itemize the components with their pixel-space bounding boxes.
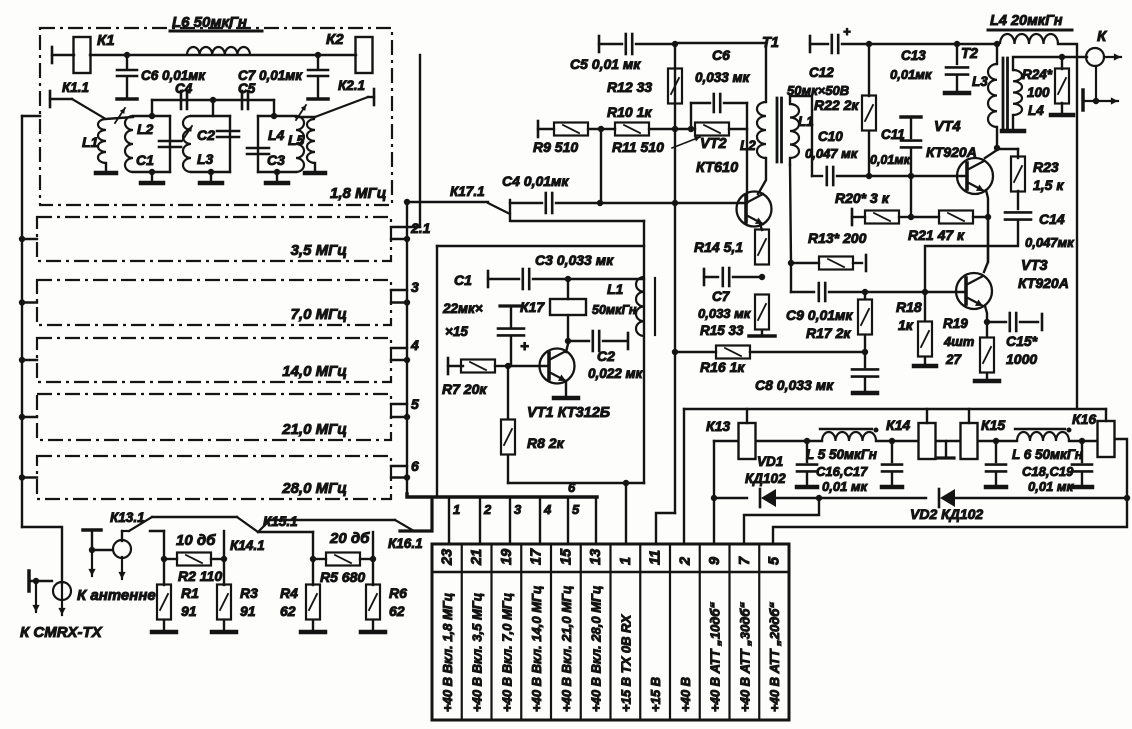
relay contact K2 <box>326 31 373 73</box>
tank3 ground <box>266 169 288 183</box>
pin number 21 <box>469 549 485 566</box>
inductor L1 <box>82 119 116 173</box>
svg-text:L1: L1 <box>607 281 624 297</box>
terminal strip columns <box>462 544 760 720</box>
lead to pin 5 <box>773 498 1127 544</box>
terminal label 23 <box>440 593 455 712</box>
tank3 top wire <box>273 100 275 116</box>
connector K antenna <box>113 540 131 579</box>
1.8 MHz band filter box <box>40 28 392 205</box>
resistor R13* 200 <box>791 230 867 271</box>
relay K14 <box>886 409 936 459</box>
node return <box>623 480 629 486</box>
svg-text:С4: С4 <box>175 81 193 96</box>
svg-text:R21 47 к: R21 47 к <box>908 227 965 243</box>
lead to pin 1 <box>625 483 627 544</box>
wire R9R10 junction drop <box>598 126 604 203</box>
bus to rail corner <box>407 494 597 497</box>
svg-text:VТ1 КТ312Б: VТ1 КТ312Б <box>527 405 610 421</box>
terminal label 15 <box>559 586 574 712</box>
VT3 emitter node <box>984 306 990 325</box>
node top <box>210 97 216 116</box>
terminal label 7 <box>737 602 752 712</box>
svg-text:К17: К17 <box>520 299 545 315</box>
svg-text:R14 5,1: R14 5,1 <box>694 239 743 255</box>
T1 primary bottom to collector <box>758 158 766 194</box>
transistor VT1 KT312B <box>527 349 610 422</box>
svg-text:К2.1: К2.1 <box>338 78 365 93</box>
svg-text:R6: R6 <box>389 585 407 601</box>
svg-text:К антенне: К антенне <box>77 587 156 604</box>
VT1 stage box <box>437 221 644 497</box>
svg-text:23: 23 <box>439 549 455 566</box>
svg-text:R17 2к: R17 2к <box>806 325 851 341</box>
tank3 top node <box>271 113 277 119</box>
wire tank3 to L5 <box>296 116 315 118</box>
svg-text:С10: С10 <box>818 129 843 144</box>
connector K output <box>1086 28 1121 66</box>
base node <box>505 363 511 369</box>
svg-text:+40 В АТТ „20дб“: +40 В АТТ „20дб“ <box>767 602 782 712</box>
svg-text:К15.1: К15.1 <box>263 514 298 529</box>
svg-text:L3: L3 <box>197 151 214 167</box>
node VD2 right <box>1124 495 1130 501</box>
svg-text:+40 В Вкл. 14,0 МГц: +40 В Вкл. 14,0 МГц <box>529 586 544 712</box>
wire C4 to VT2 base <box>600 202 746 204</box>
svg-text:R18: R18 <box>896 299 922 315</box>
capacitor C15* 1000 <box>987 313 1042 367</box>
svg-text:1к: 1к <box>898 317 914 333</box>
svg-text:100: 100 <box>1027 85 1050 100</box>
svg-text:L4: L4 <box>268 127 285 143</box>
terminal label 21 <box>470 593 485 712</box>
svg-text:VТ4: VТ4 <box>934 119 961 135</box>
node R10 R11 <box>688 126 694 132</box>
svg-text:R4: R4 <box>280 585 298 601</box>
filter output bus <box>406 202 408 496</box>
svg-text:Т2: Т2 <box>961 46 978 62</box>
VT2 base drop <box>746 129 748 203</box>
svg-text:5: 5 <box>411 396 419 412</box>
resistor R10 1k <box>607 104 695 136</box>
pin number 19 <box>499 549 515 565</box>
terminal label 9 <box>708 602 723 712</box>
capacitor C7 0,033 <box>698 268 762 338</box>
node C12 <box>866 41 872 47</box>
svg-text:91: 91 <box>240 603 256 619</box>
svg-text:R10 1к: R10 1к <box>607 104 652 120</box>
svg-text:L4: L4 <box>1028 103 1044 118</box>
svg-text:К17.1: К17.1 <box>450 184 485 199</box>
svg-text:R20* 3 к: R20* 3 к <box>835 190 890 206</box>
band box lower stub <box>391 474 410 480</box>
wire K1 to K2 <box>90 54 356 56</box>
T2 primary top <box>994 41 1000 64</box>
VT4 emitter <box>985 190 991 220</box>
lead to pin 7 <box>744 498 819 544</box>
inductor L5 <box>288 119 325 173</box>
svg-text:R9 510: R9 510 <box>533 139 578 155</box>
label K antenne <box>77 587 156 604</box>
resistor R6 62 <box>361 559 407 632</box>
transformer T1 <box>740 35 814 162</box>
svg-text:С11: С11 <box>881 127 905 142</box>
svg-text:3,5 МГц: 3,5 МГц <box>291 242 347 259</box>
node C4 <box>597 200 603 206</box>
node long vertical <box>672 200 678 206</box>
switch K16.1 output <box>388 498 432 551</box>
label 1.8 MHz <box>330 185 386 202</box>
switch K2.1 <box>315 78 374 117</box>
terminal label 1 <box>618 613 633 712</box>
svg-text:62: 62 <box>280 603 296 619</box>
svg-text:С9 0,01мк: С9 0,01мк <box>786 307 853 323</box>
resistor R15 33 <box>749 295 775 337</box>
capacitor C2 <box>568 331 644 381</box>
resistor R1 91 <box>152 559 199 632</box>
pad1 left leg <box>150 531 167 562</box>
label C16 C17 <box>816 464 869 494</box>
svg-text:+40 В АТТ „30дб“: +40 В АТТ „30дб“ <box>737 602 752 712</box>
svg-text:R8 2к: R8 2к <box>527 435 565 451</box>
svg-text:Т1: Т1 <box>762 35 779 51</box>
output line <box>1058 44 1077 409</box>
svg-text:С12: С12 <box>809 65 834 80</box>
svg-text:КТ610: КТ610 <box>696 160 738 176</box>
svg-text:К: К <box>1097 28 1108 45</box>
band select lead 2 <box>480 497 492 544</box>
relay K16 <box>1072 409 1115 457</box>
switch K13.1 <box>110 510 152 531</box>
svg-text:С6 0,01мк: С6 0,01мк <box>141 68 206 83</box>
capacitor C10 0,047mk <box>805 129 869 185</box>
switch arrow <box>296 105 306 120</box>
svg-text:С2: С2 <box>197 127 215 143</box>
resistor R14 5,1 <box>694 230 769 265</box>
wire number 2.1 <box>410 220 431 236</box>
inter-relay stub <box>936 441 960 458</box>
tank2 ground <box>200 169 222 183</box>
T1 secondary bottom drop <box>788 158 794 266</box>
svg-text:L3: L3 <box>972 74 988 89</box>
band filter box 28,0 МГц <box>37 456 391 499</box>
tank1 ground <box>141 169 163 183</box>
band select lead 4 <box>540 497 552 544</box>
svg-text:R5 680: R5 680 <box>320 569 365 585</box>
resistor R19 27 <box>943 316 999 381</box>
svg-text:КТ920А: КТ920А <box>926 144 977 160</box>
VT4 base line <box>869 175 967 177</box>
capacitor C13 0,01mk <box>890 41 969 93</box>
svg-text:R23: R23 <box>1033 159 1059 175</box>
band filter box 3,5 МГц <box>37 217 391 261</box>
VT1 collector wire <box>566 344 568 352</box>
svg-text:11: 11 <box>648 550 664 565</box>
svg-text:19: 19 <box>499 549 515 565</box>
diode VD2 KD102 <box>819 489 1127 522</box>
relay supply rail <box>684 408 1106 410</box>
svg-text:L 5 50мкГн: L 5 50мкГн <box>806 447 877 462</box>
terminal label 5 <box>767 602 782 712</box>
svg-text:VТ3: VТ3 <box>1021 258 1048 274</box>
svg-text:R22 2к: R22 2к <box>814 97 859 113</box>
pin number 9 <box>707 557 723 565</box>
band box upper stub <box>391 289 407 291</box>
svg-text:50мк×50В: 50мк×50В <box>787 83 849 98</box>
capacitor C4 0,01mk <box>502 173 600 213</box>
svg-text:+40 В Вкл. 3,5 МГц: +40 В Вкл. 3,5 МГц <box>470 593 485 712</box>
svg-text:R15 33: R15 33 <box>700 323 744 338</box>
switch arrow <box>115 108 125 123</box>
wire base <box>508 365 549 367</box>
band filter box 7,0 МГц <box>37 280 391 325</box>
capacitor C7 <box>238 55 328 99</box>
svg-text:2: 2 <box>677 557 693 566</box>
transistor VT2 KT610 <box>696 136 772 227</box>
svg-text:К2: К2 <box>326 31 344 48</box>
svg-text:1: 1 <box>453 502 460 517</box>
resistor R18 1k <box>896 292 936 366</box>
svg-text:L2: L2 <box>137 121 154 137</box>
svg-text:R11 510: R11 510 <box>612 139 664 155</box>
label K15.1 <box>263 514 298 529</box>
node R16 right <box>862 349 868 355</box>
svg-text:28,0 МГц: 28,0 МГц <box>281 480 347 497</box>
svg-text:0,047мк: 0,047мк <box>1025 235 1075 250</box>
svg-text:L5: L5 <box>288 132 305 148</box>
node R14 bottom <box>759 274 765 280</box>
svg-text:С8 0,033 мк: С8 0,033 мк <box>755 377 834 393</box>
tank circuit L2 C1 <box>125 116 181 172</box>
capacitor C17 <box>882 441 902 487</box>
svg-text:14,0 МГц: 14,0 МГц <box>282 363 347 380</box>
svg-text:5: 5 <box>572 502 580 517</box>
svg-text:4: 4 <box>543 502 552 517</box>
svg-text:0,01мк: 0,01мк <box>890 67 933 82</box>
band filter box 14,0 МГц <box>37 338 391 382</box>
capacitor C8 0,033mk <box>755 352 878 393</box>
band select lead 1 <box>449 497 460 544</box>
svg-text:+: + <box>520 338 529 355</box>
svg-text:17: 17 <box>529 548 545 565</box>
lead to pin 9 <box>713 441 715 544</box>
svg-text:5: 5 <box>767 556 783 565</box>
antenna line <box>121 531 123 541</box>
svg-text:К16: К16 <box>1072 411 1096 427</box>
svg-text:К1.1: К1.1 <box>62 80 89 95</box>
svg-text:R16 1к: R16 1к <box>700 359 745 375</box>
VT3 collector <box>984 219 988 272</box>
band box left stub <box>19 236 37 242</box>
svg-text:К14.1: К14.1 <box>230 538 265 553</box>
svg-text:L4 20мкГн: L4 20мкГн <box>990 13 1063 29</box>
resistor R17 2k <box>806 292 872 352</box>
bias vertical <box>908 176 914 220</box>
wire C3 to L1 <box>568 278 644 280</box>
svg-text:0,01 мк: 0,01 мк <box>822 479 869 494</box>
capacitor C5 0,01mk <box>570 34 675 72</box>
svg-text:КД102: КД102 <box>745 471 786 486</box>
svg-text:L1: L1 <box>82 134 99 150</box>
svg-text:13: 13 <box>588 549 604 565</box>
node C11 <box>908 173 914 179</box>
label 20 db <box>329 530 370 547</box>
label 10 db <box>176 532 216 549</box>
svg-text:50мкГн: 50мкГн <box>592 303 637 317</box>
relay contact K1 <box>74 32 115 73</box>
svg-text:С7: С7 <box>712 289 731 304</box>
resistor R3 91 <box>212 559 258 632</box>
terminal label 17 <box>529 586 544 712</box>
band box upper stub <box>391 226 420 228</box>
svg-text:+: + <box>843 24 851 39</box>
T2 secondary bottom <box>1002 115 1024 131</box>
svg-text:+40 В Вкл. 1,8 МГц: +40 В Вкл. 1,8 МГц <box>440 593 455 712</box>
svg-text:С1: С1 <box>136 152 154 168</box>
lower wire to box <box>512 220 644 222</box>
svg-text:7,0 МГц: 7,0 МГц <box>291 306 347 323</box>
svg-text:+15 В ТХ 0В RX: +15 В ТХ 0В RX <box>618 613 633 712</box>
wire number 4 <box>410 337 419 353</box>
VT2 emitter wire <box>760 224 762 230</box>
svg-text:7: 7 <box>737 556 753 565</box>
svg-text:0,033 мк: 0,033 мк <box>695 70 751 85</box>
resistor R8 2k <box>501 366 565 483</box>
svg-text:К13.1: К13.1 <box>110 510 145 525</box>
lead to pin 2 +40V <box>683 409 685 544</box>
terminal label 2 <box>678 677 693 712</box>
left input bus <box>22 116 40 527</box>
svg-text:К13: К13 <box>706 418 730 434</box>
band select lead 6 <box>568 480 596 544</box>
resistor R23 1,5k <box>997 149 1064 209</box>
connector K SMRX-TX <box>53 582 71 615</box>
node R16 left <box>672 349 678 355</box>
capacitor C6 <box>117 55 206 99</box>
svg-text:+40 В: +40 В <box>678 677 693 712</box>
svg-text:27: 27 <box>945 352 963 367</box>
pin number 23 <box>439 549 455 566</box>
bypass rail 20db <box>258 520 395 532</box>
tank1 top node <box>149 100 155 119</box>
inductor L4 20mkGn <box>988 13 1072 44</box>
resistor R22 2k <box>814 44 876 176</box>
pad2 left leg <box>258 532 316 562</box>
inductor L6 50mkGn <box>1012 428 1083 463</box>
svg-text:3: 3 <box>411 279 419 295</box>
svg-text:С4 0,01мк: С4 0,01мк <box>502 173 569 189</box>
pin number 15 <box>558 548 574 565</box>
wire K2 down <box>419 55 421 227</box>
svg-text:9: 9 <box>707 557 723 565</box>
svg-text:4: 4 <box>410 337 419 353</box>
capacitor C16 <box>797 441 817 487</box>
terminal label 13 <box>589 586 604 712</box>
svg-text:0,022 мк: 0,022 мк <box>588 366 644 381</box>
resistor R9 510 <box>533 121 615 155</box>
svg-text:VD2 КД102: VD2 КД102 <box>910 506 983 522</box>
bypass rail 10db <box>152 516 237 518</box>
svg-text:22мк×: 22мк× <box>442 301 483 316</box>
svg-text:91: 91 <box>181 603 197 619</box>
node C9 out <box>862 289 868 295</box>
svg-text:К15: К15 <box>981 417 1005 433</box>
capacitor C14 0,047mk <box>925 211 1075 292</box>
wire number 6 <box>411 458 419 474</box>
band box lower stub <box>391 414 410 420</box>
node VD1 right <box>816 495 822 501</box>
capacitor C18 <box>986 441 1006 487</box>
capacitor C12 50mk <box>787 24 869 98</box>
diode VD1 KD102 <box>714 454 819 507</box>
tank circuit L4 C3 <box>247 116 304 172</box>
relay K13 <box>706 409 756 459</box>
capacitor C5a <box>238 81 256 109</box>
band select lead 3 <box>510 497 522 544</box>
T1 secondary top wire <box>790 96 812 176</box>
svg-text:+40 В АТТ „10дб“: +40 В АТТ „10дб“ <box>708 602 723 712</box>
node junction <box>124 52 130 58</box>
inductor L1 50mkGn <box>592 277 655 336</box>
band box lower stub <box>391 236 410 242</box>
wire T1 primary top <box>675 43 766 102</box>
wire bus to RX-TX <box>22 527 62 583</box>
terminal label 11 <box>648 677 663 712</box>
svg-text:21: 21 <box>469 549 485 566</box>
resistor R21 47k <box>908 211 988 244</box>
svg-text:1,8 МГц: 1,8 МГц <box>330 185 386 202</box>
band box lower stub <box>391 299 410 305</box>
band select lead 5 <box>568 497 580 544</box>
svg-text:С3 0,033 мк: С3 0,033 мк <box>535 252 614 268</box>
svg-text:+15 В: +15 В <box>648 677 663 712</box>
resistor R4 62 <box>280 559 325 632</box>
wire L1 top <box>106 117 133 119</box>
connector mate <box>29 571 52 612</box>
K13 coil wire <box>714 440 738 442</box>
capacitor C6 0,033mk <box>691 47 751 129</box>
pin number 2 <box>677 557 693 566</box>
input terminal <box>52 47 74 63</box>
svg-text:+40 В Вкл. 7,0 МГц: +40 В Вкл. 7,0 МГц <box>499 593 514 712</box>
coupling wire top <box>152 99 274 101</box>
resistor R5 680 <box>313 553 373 586</box>
capacitor C3 <box>488 252 614 289</box>
long vertical line <box>656 44 675 544</box>
svg-text:20 дб: 20 дб <box>329 530 370 547</box>
wire K13 to L5 <box>756 438 822 444</box>
svg-text:0,01мк: 0,01мк <box>870 153 911 167</box>
band box left stub <box>19 299 37 305</box>
transistor VT4 KT920A <box>926 119 993 194</box>
VT4 to VT3 link <box>987 217 989 262</box>
connector K mate <box>1083 66 1118 110</box>
wire L6 to K16 <box>1069 438 1097 444</box>
svg-text:К СМRX-ТХ: К СМRX-ТХ <box>20 624 103 641</box>
band box upper stub <box>391 403 407 405</box>
top supply rail <box>869 43 997 45</box>
band box lower stub <box>391 357 410 363</box>
wire K17 to collector <box>565 315 571 344</box>
inductor L6 50mkGn <box>170 14 262 55</box>
svg-text:К14: К14 <box>886 417 910 433</box>
svg-text:С5 0,01 мк: С5 0,01 мк <box>570 56 641 72</box>
resistor R16 1k <box>675 346 865 376</box>
resistor R2 110 <box>164 553 224 585</box>
resistor R24* 100 <box>1022 54 1073 118</box>
svg-text:R7 20к: R7 20к <box>442 381 487 397</box>
svg-text:×15: ×15 <box>445 324 468 339</box>
